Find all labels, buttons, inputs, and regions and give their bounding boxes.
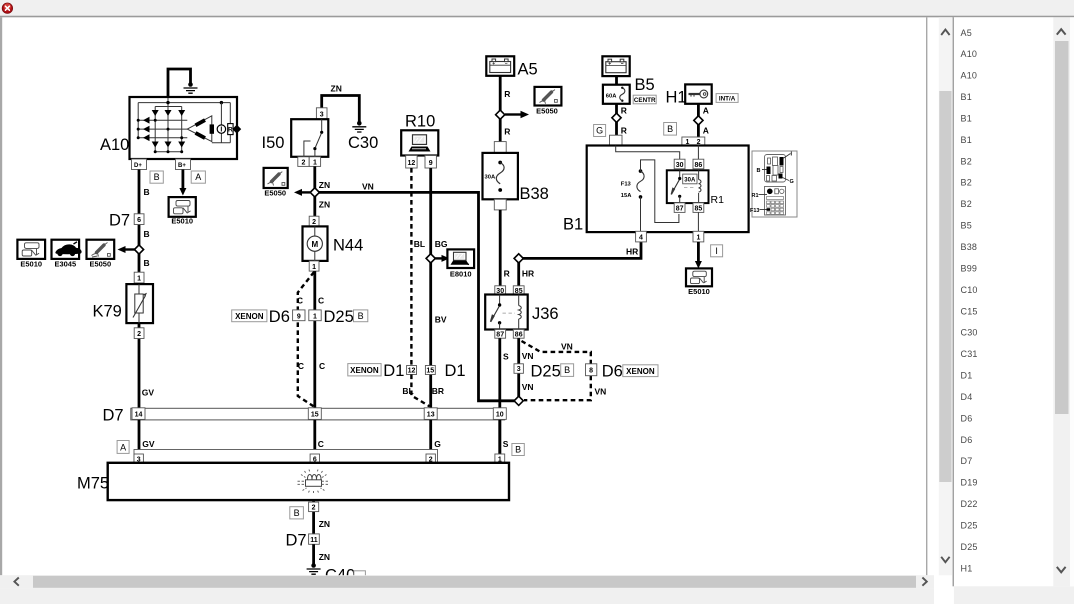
wire ZN to ground C40 bbox=[312, 544, 315, 564]
svg-text:I50: I50 bbox=[262, 134, 285, 152]
svg-text:E5010: E5010 bbox=[20, 260, 42, 269]
A10 bridge junction dots bbox=[137, 101, 223, 153]
svg-text:15A: 15A bbox=[621, 193, 632, 199]
svg-text:S: S bbox=[503, 352, 509, 362]
svg-text:D6: D6 bbox=[961, 435, 973, 445]
B1 internal wiring from B5 pin to R1 30 bbox=[616, 146, 680, 160]
svg-text:R1: R1 bbox=[711, 194, 725, 206]
main scrollbar down arrow bbox=[941, 557, 949, 562]
svg-text:9: 9 bbox=[429, 160, 433, 167]
svg-text:3: 3 bbox=[517, 366, 521, 373]
splice arrow to E5050 bbox=[302, 191, 311, 193]
svg-text:9: 9 bbox=[297, 313, 301, 320]
switch I50 box bbox=[291, 119, 328, 157]
svg-text:C: C bbox=[297, 296, 303, 306]
svg-text:C: C bbox=[318, 296, 324, 306]
svg-text:E5010: E5010 bbox=[171, 217, 193, 226]
svg-text:11: 11 bbox=[310, 537, 318, 544]
ground point E5010 icon (B1 area) bbox=[686, 268, 712, 286]
main vertical scrollbar track bbox=[939, 17, 952, 575]
svg-text:6: 6 bbox=[137, 217, 141, 224]
variant label XENON bbox=[623, 365, 658, 377]
svg-text:30: 30 bbox=[676, 162, 684, 169]
svg-text:3: 3 bbox=[320, 111, 324, 118]
svg-text:XENON: XENON bbox=[235, 312, 264, 321]
list panel background bbox=[954, 17, 1053, 586]
pin 9 of D6 bbox=[293, 310, 305, 321]
svg-text:R1: R1 bbox=[752, 193, 759, 199]
svg-text:M75: M75 bbox=[77, 475, 109, 493]
svg-text:ZN: ZN bbox=[319, 180, 330, 190]
node splice diamond BG bbox=[426, 254, 435, 263]
svg-text:BL: BL bbox=[402, 386, 413, 396]
svg-text:B1: B1 bbox=[961, 135, 972, 145]
svg-text:B5: B5 bbox=[961, 221, 972, 231]
wire VN dashed xenon loop bbox=[522, 341, 591, 400]
pin 10 of D7 bbox=[493, 408, 506, 420]
pin 1 of K79 bbox=[134, 272, 144, 283]
main scrollbar up arrow bbox=[941, 30, 949, 35]
svg-text:B: B bbox=[144, 258, 150, 268]
connector letter B bbox=[354, 310, 368, 322]
svg-text:D7: D7 bbox=[109, 212, 130, 230]
svg-text:R: R bbox=[504, 127, 510, 137]
svg-text:BV: BV bbox=[435, 315, 447, 325]
pin 87 of J36 bbox=[495, 330, 506, 339]
A10 bottom diodes bbox=[152, 142, 186, 148]
splice arrow to E5050 bbox=[505, 113, 521, 115]
svg-text:VN: VN bbox=[522, 351, 534, 361]
svg-text:D1: D1 bbox=[445, 362, 466, 380]
main vertical scrollbar thumb bbox=[939, 91, 951, 482]
pin 1 of B1 bbox=[693, 231, 704, 242]
wire S bus to M75 bbox=[498, 420, 501, 454]
wire G bus to M75 bbox=[429, 420, 432, 454]
splice icon E5050 (left row) bbox=[87, 240, 115, 259]
svg-text:B: B bbox=[667, 124, 673, 134]
node splice diamond VN bbox=[514, 396, 523, 405]
svg-text:D7: D7 bbox=[286, 532, 307, 550]
svg-text:I: I bbox=[220, 127, 222, 134]
ground A10 bbox=[184, 82, 198, 93]
node splice diamond on H1 wire bbox=[694, 116, 703, 125]
svg-text:N44: N44 bbox=[333, 237, 363, 255]
splice icon E5050 (A5 area) bbox=[535, 87, 562, 106]
connector letter B bbox=[150, 171, 163, 183]
svg-text:B: B bbox=[144, 187, 150, 197]
svg-text:12: 12 bbox=[408, 368, 416, 375]
svg-text:K79: K79 bbox=[93, 303, 122, 321]
svg-text:H1: H1 bbox=[961, 563, 973, 573]
svg-text:B2: B2 bbox=[961, 156, 972, 166]
svg-text:ZN: ZN bbox=[331, 84, 342, 94]
pin D+ of A10 bbox=[132, 159, 147, 170]
svg-text:B: B bbox=[144, 229, 150, 239]
svg-text:C10: C10 bbox=[961, 285, 978, 295]
battery A5 bbox=[486, 56, 514, 76]
svg-text:A5: A5 bbox=[518, 61, 538, 79]
node splice diamond on wire B bbox=[134, 245, 143, 254]
svg-text:1: 1 bbox=[312, 264, 316, 271]
relay J36 bbox=[485, 295, 528, 330]
A10 inner frame wiring bbox=[138, 98, 230, 143]
heater plugs M75 box bbox=[108, 463, 509, 500]
toolbar background bbox=[0, 0, 1074, 16]
connector letter A bbox=[117, 441, 129, 454]
svg-text:GV: GV bbox=[142, 388, 155, 398]
wire R from B5 fuse bbox=[615, 104, 618, 135]
fusebox B1 bbox=[587, 146, 749, 233]
svg-text:D19: D19 bbox=[961, 478, 978, 488]
svg-text:E5010: E5010 bbox=[688, 287, 710, 296]
wire B5 battery to fuse bbox=[615, 76, 618, 85]
A10 output node (black diamond) bbox=[232, 125, 241, 134]
svg-text:B38: B38 bbox=[520, 185, 549, 203]
svg-text:C: C bbox=[319, 361, 325, 371]
pin 12 of R10 bbox=[406, 156, 417, 169]
connector letter B bbox=[290, 507, 304, 519]
wire C bus to M75 bbox=[313, 420, 316, 454]
svg-text:XENON: XENON bbox=[626, 367, 655, 376]
svg-text:G: G bbox=[434, 439, 441, 449]
svg-text:S: S bbox=[503, 439, 509, 449]
pin 30 of J36 bbox=[495, 286, 506, 295]
A10 indicator I bbox=[217, 125, 225, 134]
pin 11 of D7 bbox=[309, 534, 320, 544]
pin 1 of D25 bbox=[309, 310, 321, 321]
svg-text:D+: D+ bbox=[134, 163, 142, 169]
pin 6 of M75 bbox=[310, 454, 319, 463]
svg-text:VN: VN bbox=[561, 342, 573, 352]
svg-text:R: R bbox=[621, 106, 627, 116]
svg-text:B99: B99 bbox=[961, 263, 978, 273]
splice icon E5050 (I50 area) bbox=[264, 168, 288, 188]
pin 2 of I50 bbox=[298, 157, 309, 167]
diagnostic socket icon E8010 bbox=[447, 249, 474, 268]
svg-text:B2: B2 bbox=[961, 199, 972, 209]
pin 85 of R1 bbox=[693, 203, 704, 213]
svg-text:86: 86 bbox=[695, 162, 703, 169]
svg-text:8: 8 bbox=[589, 367, 593, 374]
wire VN from J36 pin 86 bbox=[517, 338, 520, 397]
svg-text:M: M bbox=[311, 240, 318, 249]
alternator A10 box bbox=[130, 97, 238, 159]
svg-text:A: A bbox=[120, 442, 126, 452]
svg-text:F13: F13 bbox=[621, 181, 632, 187]
wire BL dashed below D1 bbox=[411, 375, 429, 407]
svg-text:E5050: E5050 bbox=[536, 107, 558, 116]
ground C40 bbox=[307, 563, 321, 574]
wire B from A10 D+ down to D7 pin 6 bbox=[138, 170, 141, 408]
svg-text:ZN: ZN bbox=[319, 200, 330, 210]
horizontal scrollbar left arrow bbox=[14, 578, 18, 586]
svg-text:D1: D1 bbox=[383, 362, 404, 380]
node splice diamond ZN/VN bbox=[310, 188, 319, 197]
A10 top diodes bbox=[152, 110, 186, 116]
svg-text:2: 2 bbox=[312, 219, 316, 226]
wire BL dashed from R10 pin 12 bbox=[410, 168, 412, 366]
svg-text:C15: C15 bbox=[961, 306, 978, 316]
svg-text:B38: B38 bbox=[961, 242, 978, 252]
pin 1 of I50 bbox=[309, 157, 320, 167]
list scrollbar down arrow bbox=[1057, 567, 1066, 572]
svg-text:D22: D22 bbox=[961, 499, 978, 509]
svg-text:R: R bbox=[504, 89, 510, 99]
svg-text:E5050: E5050 bbox=[89, 260, 111, 269]
svg-text:B+: B+ bbox=[178, 163, 186, 169]
svg-text:B1: B1 bbox=[961, 92, 972, 102]
horizontal scrollbar thumb bbox=[33, 576, 916, 588]
diagram right border bbox=[926, 17, 927, 575]
node splice diamond on R bbox=[496, 110, 505, 119]
pin of B1 from B5 bbox=[610, 135, 623, 145]
pin 87 of R1 bbox=[674, 203, 685, 213]
horizontal scrollbar right arrow bbox=[922, 578, 926, 586]
M75 connector A strip bbox=[134, 450, 438, 464]
pin 6 of D7 bbox=[134, 214, 144, 225]
svg-text:C31: C31 bbox=[961, 349, 978, 359]
connector letter B bbox=[512, 444, 524, 456]
svg-text:4: 4 bbox=[639, 235, 643, 242]
svg-text:30A: 30A bbox=[684, 177, 696, 183]
pin 85 of J36 bbox=[513, 286, 524, 295]
svg-text:R: R bbox=[228, 127, 233, 134]
connector D7 bus bar bbox=[131, 408, 505, 420]
component list items bbox=[961, 28, 978, 574]
svg-text:B: B bbox=[564, 365, 570, 375]
toolbar bottom border bbox=[0, 16, 1074, 18]
svg-text:J36: J36 bbox=[532, 305, 559, 323]
connector letter G bbox=[594, 125, 606, 137]
pin 2 of K79 bbox=[134, 328, 144, 339]
splice arrow to E5050 bbox=[125, 248, 135, 250]
B1 internal wiring F13 to pin 4 bbox=[640, 197, 642, 231]
wire R from B38 to J36 pin 30 bbox=[499, 210, 502, 286]
M75 glow plug icon bbox=[298, 470, 330, 494]
connector letter I bbox=[711, 245, 723, 257]
key switch H1 bbox=[685, 84, 712, 103]
svg-text:C30: C30 bbox=[961, 328, 978, 338]
svg-text:VN: VN bbox=[522, 382, 534, 392]
wire C dashed xenon branch bbox=[298, 272, 314, 406]
svg-text:1: 1 bbox=[313, 159, 317, 166]
svg-text:12: 12 bbox=[408, 160, 416, 167]
svg-text:HR: HR bbox=[626, 246, 638, 256]
svg-text:D25: D25 bbox=[324, 308, 354, 326]
svg-text:A: A bbox=[703, 126, 709, 136]
fuse F13 bbox=[621, 169, 644, 199]
svg-text:13: 13 bbox=[427, 412, 435, 419]
wire ZN from I50 pin1 bbox=[313, 166, 316, 216]
wire I50 pin3 to ground C30 bbox=[322, 96, 360, 123]
svg-text:A: A bbox=[195, 172, 201, 182]
svg-text:30A: 30A bbox=[485, 175, 496, 181]
svg-text:1: 1 bbox=[313, 313, 317, 320]
svg-text:A10: A10 bbox=[100, 136, 129, 154]
ground point E5010 icon bbox=[169, 197, 196, 217]
pins 1 2 of B1 bbox=[682, 137, 705, 146]
connector letter B bbox=[664, 123, 677, 136]
svg-text:G: G bbox=[790, 179, 794, 185]
svg-text:INT/A: INT/A bbox=[719, 95, 736, 102]
svg-text:15: 15 bbox=[426, 368, 434, 375]
pin 86 of J36 bbox=[513, 330, 524, 339]
B1 internal wiring R1 85 to pin 1 bbox=[697, 212, 699, 231]
pin 8 of D6 bbox=[586, 364, 597, 376]
pin 15 of D7 bbox=[308, 408, 321, 420]
connector letter B bbox=[561, 364, 574, 377]
svg-text:D7: D7 bbox=[961, 456, 973, 466]
pin 30 of R1 bbox=[674, 159, 685, 169]
wire GV bus to M75 bbox=[138, 420, 141, 454]
svg-text:C30: C30 bbox=[348, 134, 378, 152]
wire HR from B1 pin 4 bbox=[519, 242, 641, 286]
pin 2 of D7 below M75 bbox=[309, 502, 319, 512]
svg-text:F13: F13 bbox=[750, 208, 759, 214]
pin 14 of D7 bbox=[132, 408, 145, 420]
svg-text:60A: 60A bbox=[606, 94, 617, 100]
pump motor N44 bbox=[303, 226, 328, 261]
INT/A label bbox=[716, 94, 738, 103]
pin 3 of I50 bbox=[316, 108, 327, 119]
location icon E3045 car bbox=[52, 240, 82, 259]
pin 1 of M75 bbox=[495, 454, 505, 463]
svg-text:D25: D25 bbox=[531, 362, 561, 380]
svg-text:GV: GV bbox=[142, 439, 155, 449]
connector location inset bbox=[750, 151, 797, 217]
bottom filler bbox=[0, 588, 934, 604]
svg-text:15: 15 bbox=[311, 412, 319, 419]
svg-text:BR: BR bbox=[432, 386, 444, 396]
A10 left diodes bbox=[143, 117, 150, 141]
horizontal scrollbar area bbox=[0, 575, 934, 588]
fuse B38 box bbox=[483, 153, 518, 199]
pin 86 of R1 bbox=[693, 159, 704, 169]
svg-text:C: C bbox=[298, 361, 304, 371]
A10 stator delta winding bbox=[187, 116, 212, 142]
node splice diamond HR bbox=[514, 254, 523, 263]
svg-text:D25: D25 bbox=[961, 521, 978, 531]
wire BG solid from R10 pin 9 bbox=[429, 168, 432, 408]
svg-text:D6: D6 bbox=[602, 362, 623, 380]
svg-text:10: 10 bbox=[496, 412, 504, 419]
pin 12 of D1 bbox=[407, 366, 417, 375]
close button bbox=[2, 3, 12, 13]
wire A from H1 bbox=[697, 104, 700, 137]
B1 internal wiring F13 loop to R1 87 bbox=[641, 160, 679, 223]
svg-text:86: 86 bbox=[515, 332, 523, 339]
svg-text:B1: B1 bbox=[961, 114, 972, 124]
svg-text:A10: A10 bbox=[961, 71, 978, 81]
svg-text:E5050: E5050 bbox=[264, 188, 286, 197]
wire B+ to E5010 arrow bbox=[181, 170, 184, 189]
svg-text:BL: BL bbox=[414, 239, 425, 249]
wire C solid from N44 to D7 pin 15 bbox=[313, 271, 316, 408]
svg-text:C: C bbox=[318, 439, 324, 449]
svg-text:E8010: E8010 bbox=[450, 270, 472, 279]
relay R1 bbox=[667, 170, 709, 203]
svg-text:B: B bbox=[294, 508, 300, 518]
svg-text:B: B bbox=[154, 172, 160, 182]
svg-text:ZN: ZN bbox=[319, 519, 330, 529]
sensor K79 box bbox=[126, 284, 153, 323]
svg-text:BG: BG bbox=[435, 239, 448, 249]
pin of B38 bottom bbox=[494, 199, 506, 210]
pin 3 of D25 bbox=[514, 364, 523, 374]
wire from B1 pin 1 to E5010 arrow bbox=[697, 242, 700, 262]
pin 2 of M75 bbox=[426, 454, 435, 463]
connector letter box (partial) bbox=[354, 571, 366, 582]
splice arrow to E8010 bbox=[435, 257, 442, 259]
pin 9 of R10 bbox=[425, 156, 436, 169]
svg-text:B: B bbox=[757, 168, 761, 174]
list panel divider bbox=[953, 17, 954, 586]
svg-text:A10: A10 bbox=[961, 49, 978, 59]
svg-text:R10: R10 bbox=[405, 113, 435, 131]
left window border bbox=[0, 17, 2, 575]
pin 13 of D7 bbox=[424, 408, 437, 420]
svg-text:D6: D6 bbox=[961, 413, 973, 423]
pin 2 of N44 bbox=[309, 216, 319, 226]
svg-text:2: 2 bbox=[302, 159, 306, 166]
svg-text:D6: D6 bbox=[269, 308, 290, 326]
ground point E5010 icon (left row) bbox=[17, 240, 45, 259]
svg-text:G: G bbox=[596, 126, 603, 136]
CENTR label bbox=[633, 95, 656, 104]
svg-text:ZN: ZN bbox=[319, 552, 330, 562]
svg-text:D25: D25 bbox=[961, 542, 978, 552]
control unit R10 bbox=[401, 130, 438, 155]
node splice diamond on B5 wire bbox=[612, 113, 621, 122]
fuse 60A box of B5 bbox=[603, 85, 630, 104]
A10 rectifier bridge columns bbox=[138, 103, 187, 152]
variant label XENON bbox=[348, 364, 381, 376]
battery B5 bbox=[602, 56, 629, 76]
svg-text:2: 2 bbox=[137, 331, 141, 338]
svg-text:87: 87 bbox=[676, 205, 684, 212]
pin 15 of D1 bbox=[425, 366, 435, 375]
ground C30 bbox=[352, 121, 366, 132]
svg-text:1: 1 bbox=[696, 235, 700, 242]
list scrollbar thumb bbox=[1055, 41, 1069, 414]
pin 3 of M75 bbox=[134, 454, 143, 463]
connector letter A bbox=[191, 171, 205, 183]
svg-text:B2: B2 bbox=[961, 178, 972, 188]
svg-text:2: 2 bbox=[312, 505, 316, 512]
wire ZN M75 to D7 pin 11 bbox=[312, 500, 315, 534]
A10 regulator R bbox=[228, 124, 233, 135]
svg-text:VN: VN bbox=[362, 182, 374, 192]
svg-text:B1: B1 bbox=[563, 216, 583, 234]
svg-text:D1: D1 bbox=[961, 371, 973, 381]
svg-text:H1: H1 bbox=[666, 89, 687, 107]
pin 4 of B1 bbox=[636, 231, 647, 242]
wire VN from splice to corner bbox=[315, 192, 515, 400]
svg-text:87: 87 bbox=[496, 332, 504, 339]
svg-text:HR: HR bbox=[522, 269, 534, 279]
svg-text:XENON: XENON bbox=[350, 366, 379, 375]
wire R from A5 bbox=[499, 76, 502, 142]
svg-text:R: R bbox=[504, 269, 510, 279]
svg-text:E3045: E3045 bbox=[54, 260, 76, 269]
svg-text:A5: A5 bbox=[961, 28, 972, 38]
svg-text:D4: D4 bbox=[961, 392, 973, 402]
svg-text:B5: B5 bbox=[635, 76, 655, 94]
pin B+ of A10 bbox=[176, 159, 191, 170]
svg-text:A: A bbox=[703, 106, 709, 116]
svg-text:14: 14 bbox=[135, 412, 143, 419]
svg-text:1: 1 bbox=[137, 276, 141, 283]
